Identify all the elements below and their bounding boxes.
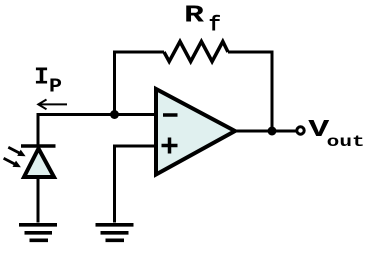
svg-text:R: R — [184, 3, 205, 30]
svg-text:f: f — [209, 15, 222, 38]
svg-text:out: out — [327, 133, 365, 151]
svg-text:P: P — [49, 76, 62, 98]
svg-text:I: I — [34, 65, 49, 92]
